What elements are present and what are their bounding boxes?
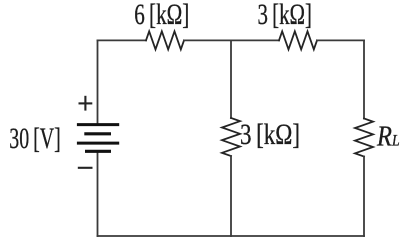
svg-text:3 [kΩ]: 3 [kΩ] (258, 0, 313, 31)
resistor R1 6[kOhm] zigzag (146, 31, 184, 49)
polarity plus sign (79, 96, 93, 111)
wire: middle branch upper (node at top rail to R3) (230, 40, 232, 118)
wire: left branch upper (top corner to battery + plate) (97, 40, 99, 124)
wire: top rail, left corner to R1 (98, 39, 147, 41)
svg-text:3 [kΩ]: 3 [kΩ] (240, 118, 300, 151)
battery short plate 4 (bottom, -) (85, 150, 111, 153)
battery V1 plates (77, 125, 119, 152)
resistor R3 3[kOhm] vertical zigzag (222, 118, 240, 156)
wire: left branch lower (battery - plate to bottom corner) (97, 151, 99, 236)
resistor R2 3[kOhm] zigzag (279, 31, 317, 49)
wire: middle branch lower (R3 to bottom rail junction) (230, 156, 232, 236)
battery short plate 2 (84, 132, 111, 135)
wire: top rail, R2 to top-right corner (317, 39, 364, 41)
svg-text:30 [V]: 30 [V] (9, 122, 61, 155)
wire: right branch lower (RL to bottom-right corner) (363, 157, 365, 237)
battery long plate 1 (top, +) (77, 123, 119, 126)
wire: top rail, R1 to R2 (184, 39, 279, 41)
resistor RL vertical zigzag (355, 119, 373, 157)
wire: right branch upper (top-right corner to RL) (363, 40, 365, 118)
battery long plate 3 (77, 142, 119, 145)
svg-text:RL: RL (376, 121, 400, 152)
polarity minus sign (78, 167, 93, 169)
svg-text:6 [kΩ]: 6 [kΩ] (134, 0, 189, 31)
wire: bottom rail (98, 235, 365, 237)
